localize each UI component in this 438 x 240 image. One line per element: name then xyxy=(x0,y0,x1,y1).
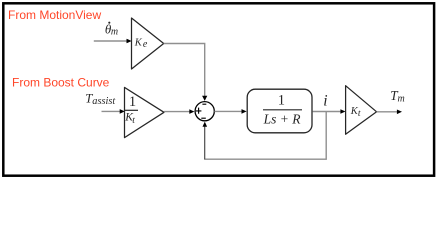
wire Ke output to summer top xyxy=(164,44,208,101)
svg-text:1: 1 xyxy=(129,94,136,110)
summing junction xyxy=(195,102,214,121)
svg-text:t: t xyxy=(358,109,361,119)
gain block 1/Kt xyxy=(124,87,164,137)
svg-text:Ls + R: Ls + R xyxy=(263,111,302,126)
svg-text:t: t xyxy=(132,116,135,126)
border frame xyxy=(3,3,434,175)
gain block Kt xyxy=(346,86,377,135)
wire input arrow to Ke xyxy=(94,39,132,44)
wire 1/Kt output to summer xyxy=(164,109,194,114)
svg-text:From MotionView: From MotionView xyxy=(8,8,101,22)
op-amp gain Ke xyxy=(132,18,164,69)
node T_m output label xyxy=(390,88,405,104)
svg-text:K: K xyxy=(134,38,143,49)
svg-text:m: m xyxy=(398,94,405,105)
wire block output to Kt xyxy=(313,109,346,114)
svg-text:m: m xyxy=(111,27,118,38)
wire summer output to block xyxy=(214,109,246,114)
wire output arrow T_m xyxy=(377,110,402,115)
block 1/(Ls+R) xyxy=(247,89,312,133)
svg-text:From Boost Curve: From Boost Curve xyxy=(12,75,110,89)
svg-text:i: i xyxy=(323,92,327,109)
node T_assist input label xyxy=(85,92,116,108)
wire feedback loop to summer bottom xyxy=(203,112,327,160)
wire input arrow to 1/Kt xyxy=(102,109,125,114)
svg-text:e: e xyxy=(143,39,148,50)
svg-text:assist: assist xyxy=(92,96,116,107)
node theta_dot_m input label xyxy=(105,21,118,37)
svg-text:1: 1 xyxy=(278,93,285,109)
